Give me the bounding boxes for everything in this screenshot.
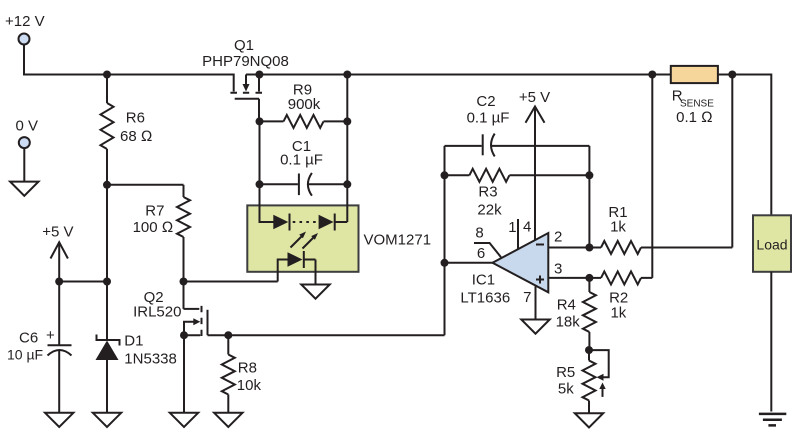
ground R5 bbox=[575, 413, 603, 427]
wire Q2 ground bbox=[183, 335, 185, 413]
node R8 gate bbox=[224, 331, 232, 339]
ground R8 bbox=[214, 413, 242, 427]
pin 3 bbox=[548, 261, 589, 278]
load box bbox=[753, 215, 791, 271]
node rail R9 right branch bbox=[343, 71, 351, 79]
wire 0V lead bbox=[23, 148, 25, 182]
svg-text:SENSE: SENSE bbox=[680, 99, 714, 110]
svg-text:+5 V: +5 V bbox=[519, 89, 550, 106]
terminal +12V bbox=[5, 13, 45, 45]
ground IC1 bbox=[521, 320, 549, 334]
wire C2 left vertical bbox=[444, 146, 446, 335]
wire dotted link bbox=[293, 221, 317, 223]
svg-text:1k: 1k bbox=[610, 304, 626, 321]
svg-text:IRL520: IRL520 bbox=[133, 304, 181, 321]
node pin3 R2 R4 bbox=[585, 274, 593, 282]
capacitor C6 bbox=[7, 282, 72, 413]
svg-text:Q1: Q1 bbox=[234, 37, 254, 54]
photodiode PD1 bbox=[273, 214, 289, 231]
node R3 right bbox=[585, 171, 593, 179]
node R3 left bbox=[441, 171, 449, 179]
svg-text:0.1 µF: 0.1 µF bbox=[467, 110, 510, 127]
wire top rail right bbox=[246, 75, 771, 216]
+5V arrow IC1 bbox=[519, 89, 550, 241]
node R4 R5 bbox=[585, 346, 593, 354]
wire load to ground bbox=[770, 272, 772, 412]
op-amp IC1 bbox=[460, 233, 548, 307]
node IC1 output bbox=[441, 259, 449, 267]
transistor Q2 bbox=[133, 289, 207, 336]
svg-text:2: 2 bbox=[554, 229, 562, 246]
light arrows bbox=[291, 232, 319, 249]
svg-text:C2: C2 bbox=[476, 93, 495, 110]
svg-text:IC1: IC1 bbox=[472, 272, 495, 289]
resistor R4 bbox=[556, 278, 596, 350]
svg-text:1: 1 bbox=[508, 219, 516, 236]
node C1 right bbox=[343, 180, 351, 188]
wire VOM right lead bbox=[335, 75, 348, 223]
node D1 top bbox=[103, 278, 111, 286]
svg-text:+: + bbox=[46, 327, 55, 344]
svg-text:LT1636: LT1636 bbox=[460, 290, 510, 307]
ground D1 bbox=[93, 413, 121, 427]
svg-text:R6: R6 bbox=[126, 110, 145, 127]
capacitor C2 bbox=[445, 93, 590, 156]
potentiometer R5 bbox=[556, 350, 609, 413]
wire +5V node bbox=[59, 281, 107, 283]
svg-text:R7: R7 bbox=[145, 203, 164, 220]
node Q2 drain LED bbox=[180, 278, 188, 286]
optocoupler VOM1271 box bbox=[247, 205, 431, 271]
resistor R3 bbox=[445, 169, 590, 219]
ground Q2 bbox=[170, 413, 198, 427]
svg-text:+5 V: +5 V bbox=[42, 224, 73, 241]
svg-text:3: 3 bbox=[554, 261, 562, 278]
resistor R7 bbox=[133, 185, 190, 309]
transistor Q1 bbox=[202, 37, 289, 121]
svg-text:D1: D1 bbox=[124, 333, 143, 350]
resistor R9 bbox=[260, 82, 348, 128]
wire top rail left bbox=[23, 75, 234, 92]
node rail R6 branch bbox=[103, 71, 111, 79]
svg-text:22k: 22k bbox=[477, 202, 502, 219]
resistor R8 bbox=[222, 335, 262, 413]
svg-text:7: 7 bbox=[523, 289, 531, 306]
svg-text:18k: 18k bbox=[556, 314, 581, 331]
svg-text:900k: 900k bbox=[288, 96, 321, 113]
node C1 left bbox=[256, 180, 264, 188]
svg-text:10k: 10k bbox=[237, 377, 262, 394]
wire R6 to R7 bbox=[107, 184, 184, 186]
wire VOM left lead bbox=[260, 121, 274, 222]
svg-text:0.1 Ω: 0.1 Ω bbox=[676, 109, 713, 126]
resistor R6 bbox=[101, 75, 153, 341]
node Q2 source ground bbox=[180, 331, 188, 339]
node rail R1 sense right bbox=[728, 71, 736, 79]
node rail R2 sense left bbox=[648, 71, 656, 79]
svg-text:0.1 µF: 0.1 µF bbox=[280, 152, 323, 169]
svg-text:R5: R5 bbox=[556, 364, 575, 381]
svg-text:0 V: 0 V bbox=[16, 118, 39, 135]
svg-text:100 Ω: 100 Ω bbox=[133, 219, 174, 236]
pin 7 bbox=[523, 286, 535, 319]
svg-text:C6: C6 bbox=[19, 330, 38, 347]
svg-text:4: 4 bbox=[523, 219, 531, 236]
resistor R2 bbox=[589, 75, 652, 322]
node R9 left bbox=[256, 117, 264, 125]
ground earth load bbox=[759, 414, 786, 426]
svg-text:Load: Load bbox=[756, 237, 787, 253]
ground VOM LED bbox=[301, 285, 329, 299]
node pin2 R1 bbox=[585, 244, 593, 252]
svg-text:R3: R3 bbox=[478, 184, 497, 201]
capacitor C1 bbox=[260, 138, 348, 196]
diode D1 zener bbox=[96, 333, 177, 413]
resistor R1 bbox=[589, 75, 732, 255]
svg-text:VOM1271: VOM1271 bbox=[364, 232, 432, 249]
node R6 R7 bbox=[103, 181, 111, 189]
svg-text:5k: 5k bbox=[558, 381, 574, 398]
svg-text:1k: 1k bbox=[610, 219, 626, 236]
wire Q2 gate to IC1 output bbox=[208, 334, 445, 336]
svg-text:8: 8 bbox=[475, 225, 483, 242]
photodiode PD2 bbox=[319, 214, 335, 231]
svg-text:R4: R4 bbox=[557, 297, 576, 314]
resistor RSENSE bbox=[671, 66, 718, 126]
svg-text:R8: R8 bbox=[238, 360, 257, 377]
node Q1 source rail bbox=[255, 71, 263, 79]
wire +12V lead bbox=[23, 45, 25, 75]
+5V arrow left bbox=[42, 224, 73, 282]
pin 8 bbox=[474, 225, 501, 258]
svg-text:+12 V: +12 V bbox=[5, 13, 45, 30]
pin 6 output bbox=[445, 245, 493, 263]
ground C6 bbox=[45, 413, 73, 427]
wire LED anode bbox=[184, 281, 278, 283]
wire C2 right vertical bbox=[588, 146, 590, 248]
node R9 right bbox=[343, 117, 351, 125]
LED VOM bbox=[278, 251, 316, 285]
pin 2 bbox=[548, 229, 589, 248]
pin 1 bbox=[508, 219, 518, 249]
node +5V C6 bbox=[55, 278, 63, 286]
ground 0V bbox=[10, 182, 38, 196]
terminal 0V bbox=[16, 118, 39, 149]
svg-text:10 µF: 10 µF bbox=[7, 347, 43, 363]
svg-text:PHP79NQ08: PHP79NQ08 bbox=[202, 53, 289, 70]
svg-text:68 Ω: 68 Ω bbox=[120, 128, 152, 145]
svg-text:6: 6 bbox=[477, 245, 485, 262]
svg-text:1N5338: 1N5338 bbox=[124, 351, 177, 368]
